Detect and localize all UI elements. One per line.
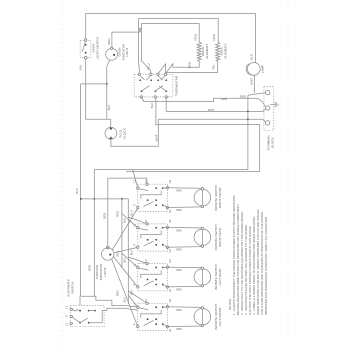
infinite switch Left Front box (138, 303, 168, 330)
wire main left BLK run (80, 84, 82, 296)
ground symbol (270, 104, 275, 106)
svg-text:H2: H2 (168, 259, 172, 263)
svg-text:SWITCH: SWITCH (71, 282, 75, 294)
svg-text:H1: H1 (168, 328, 172, 332)
svg-text:RIGHT FRONT: RIGHT FRONT (218, 187, 222, 208)
svg-text:RED: RED (116, 211, 120, 217)
svg-text:LIGHT: LIGHT (125, 47, 129, 56)
infinite switch Left Front contacts (155, 306, 157, 308)
wire to bake element top (139, 19, 219, 42)
svg-text:YEL: YEL (212, 64, 216, 70)
svg-text:THERMOSTAT: THERMOSTAT (175, 75, 179, 96)
svg-text:BLK: BLK (107, 104, 111, 111)
svg-text:H1: H1 (168, 249, 172, 253)
wire clock feeder to L2 terminal (158, 119, 265, 122)
svg-text:GRN: GRN (221, 97, 227, 101)
wire pair crossover (139, 27, 142, 33)
wire diag to switch2 top (128, 217, 147, 224)
svg-text:L2: L2 (144, 259, 148, 262)
svg-text:L2: L2 (65, 323, 69, 326)
svg-text:ORN: ORN (176, 208, 182, 212)
surface unit Left Front (194, 308, 211, 325)
wire clock bottom to riser (111, 119, 158, 146)
svg-text:RED: RED (88, 264, 92, 271)
wire diag to switch2 L1 (122, 214, 138, 228)
svg-text:ORN: ORN (176, 248, 182, 252)
svg-text:H1: H1 (168, 288, 172, 292)
svg-text:L1: L1 (132, 263, 136, 266)
wire bus left vertical (93, 170, 95, 297)
infinite switch Right Rear box (138, 224, 168, 251)
wire RED drop to indicator (107, 178, 109, 248)
svg-text:L1: L1 (65, 305, 69, 308)
alternate switch S3 (70, 305, 104, 326)
surface unit Left Rear (194, 269, 211, 286)
svg-text:L2: L2 (144, 180, 148, 183)
infinite switch Right Front box (138, 184, 168, 211)
svg-text:P: P (132, 323, 136, 325)
svg-text:WHT: WHT (249, 78, 253, 85)
svg-text:ORN: ORN (176, 287, 182, 291)
wire clock top link (86, 119, 111, 127)
svg-text:L1: L1 (132, 223, 136, 226)
wire cross tie (81, 83, 107, 85)
wire RED bus to switch1 top (108, 178, 147, 184)
wire BLK feeder (156, 97, 260, 172)
wire pair left leg (138, 19, 141, 75)
svg-text:BLK: BLK (150, 102, 154, 109)
wire lamp bottom (253, 75, 255, 93)
wire staircase B from alternate switch (102, 308, 138, 310)
svg-text:ORN: ORN (176, 228, 182, 232)
svg-text:H2: H2 (168, 298, 172, 302)
svg-text:LEFT FRONT: LEFT FRONT (218, 307, 222, 326)
svg-text:ORN: ORN (176, 327, 182, 331)
surface indicator light DS3 (107, 246, 110, 249)
clock T.O.D. M1 (105, 127, 117, 139)
svg-text:L2: L2 (144, 219, 148, 222)
svg-text:WHT: WHT (154, 134, 158, 141)
wire broil bottom return (165, 61, 199, 74)
wire diag to switch3 L1 (122, 253, 138, 267)
svg-text:L1: L1 (132, 303, 136, 306)
infinite switch Right Rear contacts (155, 227, 157, 229)
wire GRN ground feeder (141, 97, 265, 107)
svg-text:L1: L1 (132, 179, 136, 183)
wire drop into alternate switch (79, 296, 81, 305)
wire oven light switch down (85, 59, 87, 119)
page fold dotted line right (287, 2, 289, 348)
bake element R2 (216, 42, 220, 61)
wire to broil element top (141, 24, 199, 42)
wire diag to switch3 top (128, 257, 147, 263)
svg-text:BLU: BLU (129, 250, 133, 255)
wires to surface unit Left Front (167, 306, 202, 309)
infinite switch Right Front contacts (155, 187, 157, 189)
wire WHT neutral feeder (166, 97, 265, 112)
svg-text:P: P (132, 244, 136, 246)
wire BLK distribution horizontal (81, 198, 129, 200)
page fold dotted line left (61, 2, 63, 348)
wire top supply loop (86, 14, 256, 63)
surface unit Right Rear (194, 229, 211, 246)
svg-text:BLU: BLU (147, 63, 151, 69)
wire staircase A to switch4 (81, 296, 138, 307)
svg-text:RED: RED (116, 290, 120, 296)
wires to surface unit Left Rear (167, 266, 202, 269)
svg-text:RED: RED (194, 33, 198, 40)
oven lamp DS2 (247, 63, 260, 76)
thermostat S2 (134, 74, 173, 97)
svg-text:RED: RED (107, 37, 111, 44)
svg-text:ELEMENT: ELEMENT (205, 44, 209, 59)
wire junction node A (106, 83, 108, 85)
wire bus C vertical (121, 199, 123, 268)
svg-text:RED: RED (103, 212, 107, 219)
svg-text:CLOCK: CLOCK (122, 127, 126, 139)
svg-text:P: P (132, 204, 136, 206)
svg-text:BLOCK: BLOCK (271, 136, 275, 147)
svg-text:RED: RED (212, 33, 216, 40)
wires to surface unit Right Front (167, 187, 202, 190)
wire bus D vertical (127, 199, 129, 304)
svg-text:H2: H2 (168, 219, 172, 223)
surface unit Right Front (194, 189, 211, 206)
wire bus A diag to switch1 L1 (133, 170, 138, 189)
svg-text:WHT: WHT (208, 108, 215, 112)
wire bus L1 horizontal (94, 169, 248, 171)
svg-text:LIGHT: LIGHT (103, 267, 107, 276)
wire pair right leg (141, 24, 151, 75)
wire L1 riser to terminal block (247, 95, 249, 169)
svg-text:ORN: ORN (176, 189, 182, 193)
oven indicator light DS1 (111, 32, 113, 48)
svg-text:BLU: BLU (129, 290, 133, 295)
svg-text:RIGHT REAR: RIGHT REAR (218, 227, 222, 247)
svg-text:BLK: BLK (122, 257, 126, 262)
svg-text:BLK: BLK (79, 63, 83, 70)
svg-text:BLK: BLK (75, 187, 79, 194)
svg-text:ORN: ORN (176, 268, 182, 272)
svg-text:RED: RED (188, 61, 192, 68)
svg-text:ELEMENT: ELEMENT (224, 44, 228, 59)
svg-text:RED: RED (240, 95, 246, 99)
svg-text:BLK: BLK (122, 297, 126, 302)
infinite switch Left Rear contacts (155, 267, 157, 269)
svg-text:LEFT REAR: LEFT REAR (218, 268, 222, 286)
svg-text:LIGHT SWITCH: LIGHT SWITCH (96, 37, 100, 59)
wire bus L2 horizontal (126, 171, 260, 173)
svg-text:BLK: BLK (250, 53, 254, 60)
svg-text:IMPROPER AND DANGEROUS OPERATI: IMPROPER AND DANGEROUS OPERATION. VERIFY… (264, 217, 268, 315)
svg-text:BLK: BLK (122, 218, 126, 223)
wire diag to switch4 L1 (128, 295, 138, 307)
svg-text:LAMP: LAMP (261, 65, 265, 73)
svg-text:ORN: ORN (176, 308, 182, 312)
wire bake bottom return (158, 61, 218, 74)
wire diag to switch4 top (128, 291, 147, 303)
svg-text:N: N (65, 315, 69, 317)
svg-text:L2: L2 (144, 299, 148, 302)
infinite switch Left Rear box (138, 264, 168, 291)
svg-text:H2: H2 (168, 179, 172, 183)
svg-text:P: P (132, 283, 136, 285)
oven light switch SW1 (80, 40, 91, 57)
wire pilot fan to switch1 P (112, 208, 137, 250)
wire pilot fan to switch4 P (112, 260, 138, 327)
wire pilot fan to switch3 P (114, 257, 138, 287)
wire pilot fan to switch2 P (114, 247, 138, 253)
wires to surface unit Right Rear (167, 226, 202, 229)
svg-text:BLU: BLU (129, 210, 133, 215)
terminal block TB1 (264, 87, 274, 131)
svg-text:H1: H1 (168, 209, 172, 213)
broil element R1 (197, 42, 201, 61)
wire indicator light to node (107, 60, 110, 120)
